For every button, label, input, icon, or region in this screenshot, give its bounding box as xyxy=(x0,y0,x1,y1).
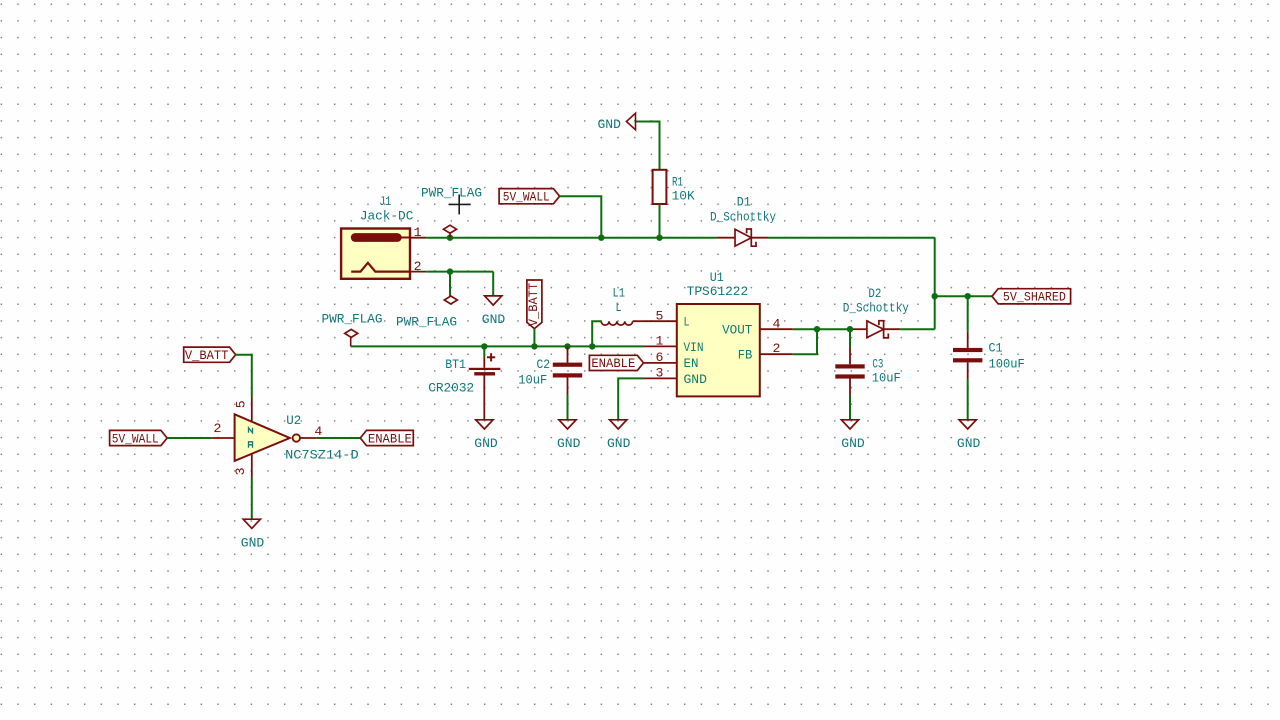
pin number 2 (U2) xyxy=(213,421,221,436)
wire C1 bottom to GND xyxy=(967,379,969,420)
ground label GND (BT1) xyxy=(474,436,497,451)
wire junction to C1 xyxy=(967,296,969,331)
pin 3 stub of U1 xyxy=(644,377,677,379)
svg-text:L: L xyxy=(684,315,690,330)
inverter U2 NC7SZ14 triangle xyxy=(235,414,300,461)
svg-text:VIN: VIN xyxy=(684,340,704,355)
pin number 5 (U1) xyxy=(656,308,664,323)
ground symbol (left-pointing) for R1 top xyxy=(626,113,635,130)
svg-text:1: 1 xyxy=(414,225,422,240)
ground label GND (C1) xyxy=(957,436,980,451)
value 10uF (C3) xyxy=(872,371,901,386)
label U1 xyxy=(710,270,724,285)
pin name FB xyxy=(738,348,753,363)
capacitor C1 pins xyxy=(967,331,969,379)
value NC7SZ14-D xyxy=(285,448,359,463)
inductor L1 xyxy=(601,321,643,325)
svg-text:EN: EN xyxy=(684,356,699,371)
svg-text:D1: D1 xyxy=(737,195,751,210)
label PWR_FLAG (pin2 net) xyxy=(396,315,457,330)
junction at C3 xyxy=(847,326,853,332)
pin name VIN xyxy=(684,340,704,355)
pin name EN xyxy=(684,356,699,371)
wire junction to C3 xyxy=(849,329,851,347)
pin 3 stub of U2 xyxy=(251,454,253,478)
wire J1 pin2 to GND drop xyxy=(426,271,493,273)
ground (J1 pin 2) xyxy=(485,296,502,305)
pin number 5 (U2) xyxy=(233,400,248,408)
value L (L1) xyxy=(616,300,622,315)
capacitor C1 xyxy=(953,348,982,363)
svg-text:6: 6 xyxy=(656,350,664,365)
pin number 4 (U2) xyxy=(314,424,322,439)
label BT1 xyxy=(445,357,466,372)
junction at L1 branch xyxy=(589,343,595,349)
svg-text:GND: GND xyxy=(482,312,505,327)
pin number 1 (U1) xyxy=(656,334,664,349)
pin number 3 (U1) xyxy=(656,366,664,381)
junction 5V_SHARED node xyxy=(932,293,938,299)
svg-text:5V_SHARED: 5V_SHARED xyxy=(1003,290,1066,305)
svg-text:D2: D2 xyxy=(868,286,881,301)
wire BT1 bottom to GND (pin) xyxy=(483,397,485,420)
svg-text:2: 2 xyxy=(213,421,221,436)
ground label GND (J1 pin2) xyxy=(482,312,505,327)
global label ENABLE (U2) xyxy=(360,430,413,446)
svg-text:5V_WALL: 5V_WALL xyxy=(112,431,159,446)
capacitor C2 pins xyxy=(567,346,569,394)
PWR_FLAG diamond (top) xyxy=(444,225,457,233)
junction at PWR_FLAG (pin2 net) xyxy=(447,268,453,274)
wire vertical 5V_SHARED branch xyxy=(934,238,936,330)
junction at 5V_WALL label drop xyxy=(598,235,604,241)
svg-text:NC7SZ14-D: NC7SZ14-D xyxy=(285,448,359,463)
svg-text:10uF: 10uF xyxy=(518,372,547,387)
junction at R1 bottom xyxy=(656,235,662,241)
label C1 xyxy=(989,341,1003,356)
capacitor C3 pins xyxy=(849,348,851,396)
junction at PWR_FLAG / J1 pin 1 xyxy=(447,235,453,241)
value 10uF (C2) xyxy=(518,372,547,387)
hysteresis marks inside U2 xyxy=(249,428,253,448)
svg-text:4: 4 xyxy=(772,316,780,331)
pin 2 stub of U2 xyxy=(211,437,234,439)
diode D2 D_Schottky xyxy=(853,321,900,338)
ground label GND (C2) xyxy=(557,436,580,451)
svg-text:FB: FB xyxy=(738,348,753,363)
editor cursor crosshair xyxy=(449,195,471,215)
wire to 5V_SHARED label xyxy=(935,295,992,297)
ground (C2) xyxy=(559,420,576,429)
svg-text:U2: U2 xyxy=(286,413,301,428)
label PWR_FLAG (top) xyxy=(421,186,482,201)
svg-text:2: 2 xyxy=(414,259,422,274)
svg-text:5: 5 xyxy=(656,308,664,323)
wire VOUT to D2 xyxy=(793,328,853,330)
svg-text:4: 4 xyxy=(314,424,322,439)
wire FB feedback xyxy=(793,329,817,354)
svg-text:D_Schottky: D_Schottky xyxy=(843,301,909,316)
svg-text:GND: GND xyxy=(557,436,580,451)
PWR_FLAG diamond (pin2 net) xyxy=(444,296,457,304)
pin 4 stub of U2 xyxy=(300,437,317,439)
capacitor C2 xyxy=(553,363,582,378)
svg-text:C1: C1 xyxy=(989,341,1003,356)
pin 5 stub of U1 xyxy=(644,320,677,322)
wire C2 bottom to GND xyxy=(567,395,569,421)
junction at C2 xyxy=(564,343,570,349)
global label 5V_WALL (top) xyxy=(499,189,559,205)
wire V_BATT label to net xyxy=(533,329,535,347)
wire U2 pin3 to GND xyxy=(251,478,253,520)
pin name GND xyxy=(684,372,707,387)
svg-text:5: 5 xyxy=(233,400,248,408)
svg-text:PWR_FLAG: PWR_FLAG xyxy=(396,315,457,330)
ground (U2) xyxy=(243,519,260,528)
pin name L xyxy=(684,315,690,330)
svg-text:10K: 10K xyxy=(672,189,695,204)
svg-text:C3: C3 xyxy=(872,356,883,371)
svg-text:GND: GND xyxy=(598,117,621,132)
svg-text:PWR_FLAG: PWR_FLAG xyxy=(421,186,482,201)
PWR_FLAG diamond (floating left) xyxy=(345,329,358,337)
svg-text:ENABLE: ENABLE xyxy=(368,431,412,446)
junction VOUT/FB xyxy=(814,326,820,332)
label J1 xyxy=(379,194,391,209)
power flag PWR_FLAG (top, on 5V_WALL net) xyxy=(449,233,451,238)
svg-text:TPS61222: TPS61222 xyxy=(687,284,749,299)
junction at BT1 xyxy=(481,343,487,349)
ground label GND (C3) xyxy=(841,436,864,451)
value D_Schottky (D1) xyxy=(710,209,776,224)
svg-text:C2: C2 xyxy=(536,357,550,372)
pin 5 stub of U2 xyxy=(251,398,253,422)
label PWR_FLAG (floating left) xyxy=(322,311,383,326)
ground label GND (top, R1) xyxy=(598,117,621,132)
global label 5V_WALL (U2) xyxy=(110,430,168,446)
label U2 xyxy=(286,413,301,428)
pin number 6 (U1) xyxy=(656,350,664,365)
svg-text:BT1: BT1 xyxy=(445,357,466,372)
svg-text:CR2032: CR2032 xyxy=(428,380,474,395)
wire down to GND (J1 pin2) xyxy=(492,272,494,296)
ground label GND (U1) xyxy=(607,436,630,451)
svg-text:1: 1 xyxy=(656,334,664,349)
wire L1 branch xyxy=(592,321,601,346)
svg-text:PWR_FLAG: PWR_FLAG xyxy=(322,311,383,326)
svg-text:J1: J1 xyxy=(379,194,391,209)
svg-text:R1: R1 xyxy=(672,175,683,190)
svg-text:ENABLE: ENABLE xyxy=(591,356,635,371)
junction at V_BATT label xyxy=(531,343,537,349)
capacitor C3 xyxy=(835,364,864,378)
resistor R1 xyxy=(653,170,667,204)
diode D1 D_Schottky xyxy=(717,229,768,246)
svg-text:5V_WALL: 5V_WALL xyxy=(503,190,550,205)
value D_Schottky (D2) xyxy=(843,301,909,316)
connector J1 Jack-DC body xyxy=(341,229,410,279)
pin number 2 (J1) xyxy=(414,259,422,274)
value Jack-DC xyxy=(360,209,414,224)
svg-text:V_BATT: V_BATT xyxy=(185,348,229,363)
ground label GND (U2) xyxy=(241,536,264,551)
svg-text:3: 3 xyxy=(656,366,664,381)
wire 5V_WALL label to U2 input xyxy=(167,437,211,439)
value 10K xyxy=(672,189,695,204)
pin 2 stub of U1 xyxy=(760,353,793,355)
label C3 xyxy=(872,356,883,371)
svg-text:L1: L1 xyxy=(612,286,625,301)
wire junction to BT1 top xyxy=(483,346,485,356)
pin 2 of J1 xyxy=(410,271,426,273)
wire D2 cathode to branch xyxy=(900,328,934,330)
svg-text:GND: GND xyxy=(241,536,264,551)
pin number 3 (U2) xyxy=(233,467,248,475)
wire 5V_WALL label to net xyxy=(560,196,602,238)
svg-text:VOUT: VOUT xyxy=(722,323,752,338)
svg-text:L: L xyxy=(616,300,622,315)
svg-text:GND: GND xyxy=(474,436,497,451)
wire J1 pin1 to D1 (5V_WALL net) xyxy=(426,237,717,239)
wire: GND arrow to R1 top corner xyxy=(635,122,659,170)
svg-text:D_Schottky: D_Schottky xyxy=(710,209,776,224)
pin 1 of J1 xyxy=(410,237,426,239)
pin name VOUT xyxy=(722,323,752,338)
ground (C1) xyxy=(959,420,976,429)
pin number 2 (U1) xyxy=(772,341,780,356)
pin number 4 (U1) xyxy=(772,316,780,331)
label C2 xyxy=(536,357,550,372)
global label V_BATT (U2) xyxy=(184,347,236,363)
value CR2032 xyxy=(428,380,474,395)
value TPS61222 xyxy=(687,284,749,299)
wire R1 bottom to 5V_WALL net xyxy=(659,204,661,238)
svg-text:GND: GND xyxy=(607,436,630,451)
svg-text:3: 3 xyxy=(233,467,248,475)
global label ENABLE (U1) xyxy=(589,355,643,371)
svg-text:V_BATT: V_BATT xyxy=(526,283,541,327)
label R1 xyxy=(672,175,683,190)
junction at C1 drop xyxy=(965,293,971,299)
global label V_BATT (vertical) xyxy=(526,280,542,329)
label D2 xyxy=(868,286,881,301)
ground (BT1) xyxy=(476,420,493,429)
IC U1 TPS61222 body xyxy=(677,304,760,396)
battery BT1 xyxy=(469,353,501,396)
svg-text:GND: GND xyxy=(957,436,980,451)
wire D1 cathode to right corner xyxy=(768,237,935,239)
wire V_BATT net horizontal xyxy=(351,345,644,347)
wire down to PWR_FLAG (pin2 net) xyxy=(449,272,451,297)
wire U2 output to ENABLE label xyxy=(317,437,360,439)
power flag PWR_FLAG (floating left) xyxy=(350,337,352,346)
wire U1 GND pin to ground xyxy=(618,378,643,420)
pin 6 stub of U1 xyxy=(644,362,677,364)
pin number 1 (J1) xyxy=(414,225,422,240)
global label 5V_SHARED xyxy=(992,289,1071,305)
svg-text:GND: GND xyxy=(684,372,707,387)
label L1 xyxy=(612,286,625,301)
ground (C3) xyxy=(841,420,858,429)
svg-text:GND: GND xyxy=(841,436,864,451)
value 100uF (C1) xyxy=(989,357,1025,372)
pin 4 stub of U1 xyxy=(760,328,793,330)
ground (U1 pin 3) xyxy=(610,420,627,429)
svg-text:100uF: 100uF xyxy=(989,357,1025,372)
wire C3 bottom to GND xyxy=(849,396,851,421)
wire V_BATT label to U2 pin 5 xyxy=(236,355,252,398)
svg-text:2: 2 xyxy=(772,341,780,356)
label D1 xyxy=(737,195,751,210)
svg-text:10uF: 10uF xyxy=(872,371,901,386)
svg-text:Jack-DC: Jack-DC xyxy=(360,209,414,224)
pin 1 stub of U1 xyxy=(644,345,677,347)
